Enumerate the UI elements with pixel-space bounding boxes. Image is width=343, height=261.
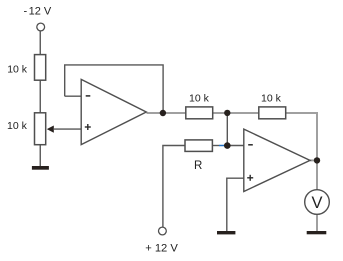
svg-text:10 k: 10 k [261, 93, 282, 105]
svg-text:10 k: 10 k [7, 120, 28, 132]
svg-text:R: R [194, 160, 202, 172]
svg-text:+ 12 V: + 12 V [145, 242, 178, 254]
svg-text:10 k: 10 k [7, 63, 28, 75]
svg-text:V: V [311, 194, 322, 212]
svg-text:10 k: 10 k [189, 93, 210, 105]
svg-text:-12 V: -12 V [24, 6, 52, 18]
